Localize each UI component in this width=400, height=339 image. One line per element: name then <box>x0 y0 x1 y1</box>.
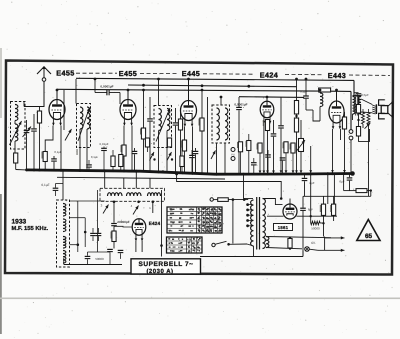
node bus j5 <box>79 169 82 172</box>
wire heater A <box>266 237 331 238</box>
capacitor mid 2 <box>189 155 195 157</box>
svg-text:M.F. 155 KHz.: M.F. 155 KHz. <box>12 226 49 232</box>
table1 col line x209.5 <box>209 207 211 233</box>
wire tube2 grid cap <box>127 90 129 100</box>
node screen j1 <box>142 84 145 87</box>
wire grid resistor down <box>39 123 41 171</box>
wire padder 2 up <box>98 228 100 233</box>
fuse mains <box>218 198 229 202</box>
wire afc3 down <box>87 259 89 264</box>
table currents outer <box>167 237 203 253</box>
wire bias V2 down <box>123 156 125 172</box>
wire c-mid2 down <box>191 158 193 174</box>
wire sub-bus y178 <box>57 177 225 179</box>
wire B+ rail y79 <box>76 78 354 80</box>
capacitor 2uF <box>302 178 308 180</box>
svg-text:E455: E455 <box>119 69 137 78</box>
coil OT primary <box>353 97 355 115</box>
node cathode j <box>357 119 359 121</box>
wire PT tap 2 <box>248 209 253 211</box>
wire rail to T2 <box>158 79 160 106</box>
wire y252 <box>88 251 111 253</box>
capacitor coupling 0.0001uF <box>107 90 109 96</box>
switch S4 <box>211 151 216 160</box>
wire c-mid lead <box>103 147 105 148</box>
resistor plate load V4 lower <box>294 118 298 132</box>
wire osc link 2 <box>70 217 86 219</box>
wire tube5 cathode down <box>332 129 334 174</box>
wire tube3 cathode <box>184 127 186 141</box>
capacitor AF coupling <box>303 96 309 98</box>
wire HT right <box>297 215 338 217</box>
wire screen feed x143 <box>143 90 145 128</box>
svg-text:E424: E424 <box>149 221 161 226</box>
wire divider B top <box>333 196 335 204</box>
svg-text:0,1µF: 0,1µF <box>54 150 61 154</box>
tube V5 E443 output <box>329 101 344 129</box>
node rail j12 <box>201 89 204 92</box>
wire 0.1uF stub <box>56 183 64 185</box>
capacitor T1 bottom <box>86 165 92 167</box>
wire antenna lead <box>24 81 44 106</box>
wire x310 above bus <box>310 146 312 174</box>
wire bias V3 down <box>184 151 186 174</box>
arrow output B <box>318 249 345 252</box>
node rect HT <box>280 197 283 200</box>
wire divider A down <box>323 215 325 236</box>
tube V1 E455 mixer <box>49 99 65 126</box>
wire tuning cap lead <box>26 120 28 130</box>
node rail j18 <box>319 89 322 92</box>
arrow output A <box>325 236 345 239</box>
capacitor decoupling x150 <box>147 119 153 121</box>
node bus j22 <box>326 172 329 175</box>
capacitor AVC <box>173 123 179 125</box>
switch tone <box>365 123 371 129</box>
transformer antenna coil box <box>11 102 26 150</box>
svg-text:1561: 1561 <box>278 225 289 230</box>
wire HT left <box>267 215 284 217</box>
wire r-mid2 down <box>120 167 122 172</box>
node bus j26 <box>62 169 65 172</box>
table2 row line y245 <box>167 244 203 246</box>
node screen j3 <box>247 85 250 88</box>
wire padder 1 up <box>92 228 94 233</box>
resistor cathode bias V3 <box>182 140 186 151</box>
potentiometer volume <box>299 139 304 152</box>
node rail j17 <box>305 78 308 81</box>
coil osc 3 <box>63 237 66 249</box>
node tone j <box>357 99 359 101</box>
node antenna terminal <box>42 78 46 82</box>
wire det5 top <box>267 150 269 154</box>
wire tuning cap down <box>26 133 28 170</box>
switch S3a <box>150 152 155 161</box>
capacitor 6uF <box>347 178 353 180</box>
wire 2uF down <box>304 181 306 196</box>
wire det3 down <box>253 166 255 175</box>
wire 2uF lead <box>304 173 306 178</box>
capacitor bypass V2 <box>132 151 138 153</box>
value smudges sideways <box>42 105 355 238</box>
wire label rail seg1 <box>76 72 117 74</box>
resistor cathode bias V2 <box>122 145 126 156</box>
node rail j9 <box>157 78 160 81</box>
table1 row line y224.2 <box>167 223 222 225</box>
speaker LS <box>372 100 392 119</box>
resistor AF grid 50000 <box>112 231 116 242</box>
wire rail y90 right <box>331 90 351 92</box>
node bus j24 <box>103 169 106 172</box>
wire rail y190 right <box>367 191 371 197</box>
wire res heater bot <box>289 247 291 250</box>
wire bottom rail y256 <box>200 256 303 258</box>
wire osc link 1 <box>70 200 105 202</box>
wire tube1 anode down <box>60 126 62 171</box>
wire grid cap lead <box>113 203 115 223</box>
table1 col line x201.5 <box>201 207 203 233</box>
capacitor padder 1 <box>90 233 96 235</box>
capacitor AF bypass 3 <box>85 256 91 258</box>
wire to bus left <box>16 169 26 171</box>
node rail j16 <box>295 78 298 81</box>
node bus j10 <box>157 171 160 174</box>
wire V7 cathode down <box>135 241 137 252</box>
svg-text:50000: 50000 <box>311 226 320 230</box>
node rail j8 <box>142 89 145 92</box>
terminal PU 2 <box>231 157 235 161</box>
wire x63 bus to coilbox <box>62 170 64 200</box>
switch mains lever <box>215 241 227 244</box>
resistor plate load V4 upper <box>294 101 298 115</box>
svg-text:0,0001µF: 0,0001µF <box>234 103 247 107</box>
resistor lower <box>356 127 360 137</box>
wire osc vert 1 <box>77 201 79 252</box>
svg-text:0,0001µF: 0,0001µF <box>100 84 113 88</box>
capacitor 0.1uF left <box>53 188 59 190</box>
wire rail to T3 <box>220 97 222 105</box>
capacitor af 2 <box>280 158 286 160</box>
tube V4 E424 detector <box>260 97 274 124</box>
inductor box padding coils <box>100 188 165 201</box>
wire to tube2 grid side <box>119 93 121 105</box>
wire resistor down <box>15 163 17 170</box>
wire af2 down <box>282 161 284 175</box>
wire T1 cap lead <box>88 160 90 164</box>
node bus j4 <box>60 169 63 172</box>
table1 col line x213.5 <box>213 207 215 233</box>
wire afc3 up <box>87 252 89 256</box>
wire x334 drop <box>333 173 335 204</box>
wire label rail seg3 <box>203 73 254 75</box>
wire coupling cap right <box>109 92 120 94</box>
node rail j14 <box>220 96 223 99</box>
node HT j <box>310 215 312 217</box>
wire det cap down <box>238 110 240 174</box>
wire af cap lead <box>305 79 307 95</box>
wire res heater top <box>289 237 291 240</box>
wire to grid resistor <box>39 107 41 112</box>
wire coilbox feed 4 <box>149 178 151 188</box>
wire label rail seg4 <box>285 73 324 75</box>
wire tube4 cathode down <box>263 124 265 175</box>
svg-text:(2030 A): (2030 A) <box>146 268 173 275</box>
svg-text:0,01µF: 0,01µF <box>99 142 108 146</box>
switch S2a <box>103 205 109 214</box>
node bus j19 <box>331 172 334 175</box>
table1 row line y215.6 <box>167 215 222 217</box>
wire primary top lead <box>244 198 254 200</box>
wire x310 drop <box>310 174 312 217</box>
coil antenna secondary <box>15 124 18 141</box>
wire padder 1 down <box>92 236 94 241</box>
wire T1 secondary down <box>86 129 88 148</box>
wire rail y97 <box>239 96 304 99</box>
capacitor AF bypass 1 <box>107 249 113 251</box>
wire tone cap down <box>358 97 360 105</box>
table2 divider <box>186 237 188 253</box>
node bus j3 <box>44 169 47 172</box>
resistor grid leak V4 <box>265 120 269 131</box>
coil osc 2 <box>63 219 66 232</box>
coil T3 primary <box>217 108 220 140</box>
capacitor det 3 <box>251 163 257 165</box>
wire grid net <box>313 110 320 121</box>
wire coil join <box>14 121 16 125</box>
wire rect top <box>289 199 291 205</box>
svg-text:6V.: 6V. <box>311 241 316 245</box>
resistor AVC <box>178 119 182 130</box>
svg-text:1933: 1933 <box>12 218 27 225</box>
wire avc cap down <box>175 126 177 173</box>
antenna <box>37 66 51 78</box>
inductor RF choke <box>320 93 323 107</box>
wire drop to coupling cap <box>94 79 96 93</box>
wire PT tap 4 <box>248 220 253 222</box>
wire tube5 top cap <box>336 90 338 101</box>
coil OT secondary <box>359 97 361 115</box>
node PT tap 2 <box>246 209 249 212</box>
wire plate load down <box>296 132 298 175</box>
wire y196 left down <box>302 196 304 207</box>
wire bias V5 down <box>344 129 346 174</box>
wire x207 drop <box>207 97 209 174</box>
table voltages outer <box>167 207 222 233</box>
node bus j21 <box>309 173 312 176</box>
wire 0.1uF lead <box>55 184 57 188</box>
table2 left text smudge <box>168 238 183 252</box>
coil osc 1 <box>63 204 66 217</box>
svg-text:65: 65 <box>365 233 373 240</box>
resistor hum bucking <box>367 113 370 125</box>
wire AF grid to tube <box>114 225 132 228</box>
coil T1 primary <box>80 107 83 129</box>
coil antenna primary <box>15 105 18 121</box>
wire tube1 grid cap <box>56 90 58 100</box>
table1 row line y228.5 <box>167 228 222 230</box>
resistor bias V5 <box>342 117 346 129</box>
wire trimmer down <box>33 132 35 171</box>
wire bypass cap down <box>53 162 55 171</box>
resistor af 1 <box>284 142 288 153</box>
wire cathode net <box>359 129 370 141</box>
node osc 1 <box>77 243 80 246</box>
wire choke top <box>319 90 321 93</box>
wire zig to node <box>320 222 323 224</box>
wire osc box down <box>63 258 65 265</box>
node S3a <box>153 158 155 160</box>
resistor af 3 <box>291 143 295 153</box>
variable coupling arrow <box>10 121 22 145</box>
node PT tap 4 <box>246 219 249 222</box>
wire det bypass lead <box>273 120 275 133</box>
svg-text:0,1µF: 0,1µF <box>41 183 49 187</box>
terminal mains input <box>210 198 213 201</box>
wire avc cap lead <box>175 108 177 122</box>
wire mains drop <box>243 174 245 199</box>
node bus j1 <box>33 169 36 172</box>
node bus j11 <box>191 172 194 175</box>
node S3b <box>171 158 173 160</box>
coil padding 1 <box>108 193 123 196</box>
border frame <box>5 61 393 275</box>
coil padding 3 <box>148 193 161 196</box>
table1 row line y211.3 <box>167 210 222 212</box>
resistor band C <box>180 156 184 167</box>
wire T1 to bus <box>79 148 81 172</box>
capacitor padder 2 <box>96 233 102 235</box>
wire PT tap 1 <box>248 204 253 206</box>
resistor 50000 zig <box>311 221 320 225</box>
variable arrow T1 <box>78 108 90 142</box>
wire det bypass down <box>273 137 275 175</box>
node padding 3 out <box>152 201 155 204</box>
wire band A down <box>147 147 149 152</box>
capacitor det 5 <box>265 155 271 157</box>
wire tube1 cathode <box>45 126 53 152</box>
wire bias resistor down <box>44 162 46 171</box>
wire pot top <box>300 120 302 139</box>
capacitor trimmer 1 <box>31 129 37 131</box>
resistor det 4 <box>258 143 262 153</box>
wire OT to speaker bottom <box>361 111 372 114</box>
variable arrow tuning 1 <box>23 127 32 138</box>
node tube3 rail <box>187 78 190 81</box>
wire AF res down <box>113 242 115 249</box>
bus connection arrowheads <box>259 170 346 173</box>
table1 data smudge <box>197 208 221 233</box>
wire choke down <box>319 107 321 122</box>
wire T2 primary to bus <box>158 131 160 173</box>
svg-text:PU: PU <box>231 153 235 156</box>
wire det1 down <box>240 152 242 175</box>
node padding 1 out <box>113 201 116 204</box>
tube V2 E455 IF amp <box>120 99 136 126</box>
capacitor 6uF rect <box>300 208 306 210</box>
wire hum to rail <box>368 124 370 196</box>
wire rail to T1 <box>75 79 77 104</box>
resistor cathode bias V1 <box>43 152 47 162</box>
capacitor bypass V3 <box>193 151 199 153</box>
node bus j23 <box>242 173 245 176</box>
resistor 500 cathode <box>356 105 360 114</box>
wire PT core left <box>256 197 258 250</box>
svg-text:2µF: 2µF <box>309 181 314 185</box>
wire rail drop x354 <box>353 80 355 96</box>
wire OT primary down <box>352 114 354 120</box>
wire cap V3 lead <box>195 148 197 151</box>
wire coilbox feed 2 <box>123 178 125 188</box>
table2 data smudge <box>187 238 200 253</box>
wire pilot to bus <box>350 140 352 174</box>
wire avc res top <box>180 108 182 119</box>
table1 col line x217.5 <box>217 207 219 233</box>
svg-text:50000: 50000 <box>95 257 104 261</box>
wire PT primary bottom <box>253 246 255 257</box>
wire screen rail y85 <box>128 85 297 87</box>
wire PT core right <box>259 197 261 250</box>
wire r-mid1 down <box>112 167 114 172</box>
wire PT tap 3 <box>248 214 253 216</box>
wire pot down <box>300 152 302 175</box>
coil heater winding <box>266 237 269 248</box>
wire hum top <box>368 109 370 113</box>
capacitor det plate <box>278 126 284 128</box>
resistor field coil <box>362 113 365 125</box>
wire OT to speaker top <box>361 99 372 105</box>
node divider <box>322 222 324 224</box>
wire T3 primary down <box>216 143 218 175</box>
wire T1 sec to bus <box>86 148 88 172</box>
resistor screen V3 <box>200 118 204 131</box>
wire af cap down <box>305 99 307 110</box>
wire afc1 down <box>109 252 111 264</box>
wire to primary bottom <box>247 244 254 246</box>
node bus j2 <box>38 169 41 172</box>
wire bypass cap lead <box>53 156 55 159</box>
wire c-mid2 lead <box>191 150 193 155</box>
terminal PU 1 <box>231 148 235 152</box>
node bus j27 <box>162 170 165 173</box>
transformer IF T3 box <box>212 105 230 143</box>
node padding 2 out <box>137 201 140 204</box>
wire x281 down <box>280 129 282 175</box>
wire lamp down <box>302 251 304 257</box>
wire x343 drop <box>343 173 345 190</box>
resistor antenna shunt <box>14 153 18 163</box>
wire det3 top <box>253 158 255 162</box>
coil osc 4 <box>63 251 66 264</box>
table1 left text smudge <box>169 208 195 231</box>
wire screen x202 <box>201 90 203 118</box>
switch S1 wave band <box>65 129 72 141</box>
wire det4 down <box>259 153 261 175</box>
wire 6uF lead <box>349 173 351 177</box>
wire antenna into coil box <box>23 102 25 107</box>
wire divider <box>296 114 298 118</box>
table2 row line y249 <box>167 248 203 250</box>
resistor screen V2 <box>141 128 145 139</box>
resistor band B <box>167 138 171 147</box>
capacitor tuning 1 <box>24 130 30 132</box>
capacitor AF grid 20000pF <box>111 224 117 226</box>
transformer IF T1 box <box>77 104 91 148</box>
node PT tap 3 <box>246 214 249 217</box>
wire pilot line x351 <box>350 91 352 129</box>
node heater A <box>289 237 291 239</box>
wire lamp out <box>309 249 318 250</box>
transformer oscillator coil box <box>57 200 70 267</box>
